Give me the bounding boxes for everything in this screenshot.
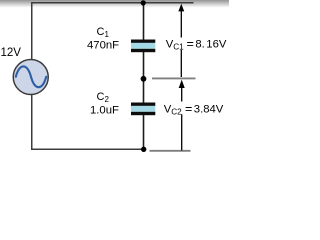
svg-text:=: = <box>185 102 192 116</box>
svg-text:1.0uF: 1.0uF <box>90 104 119 116</box>
svg-text:8.: 8. <box>195 39 204 51</box>
svg-text:C1: C1 <box>173 43 184 52</box>
svg-text:=: = <box>187 37 194 51</box>
svg-text:16V: 16V <box>206 39 227 51</box>
svg-text:3.84V: 3.84V <box>194 104 224 116</box>
svg-text:470nF: 470nF <box>87 40 119 52</box>
svg-text:C2: C2 <box>171 108 182 117</box>
svg-text:12V: 12V <box>1 47 22 59</box>
